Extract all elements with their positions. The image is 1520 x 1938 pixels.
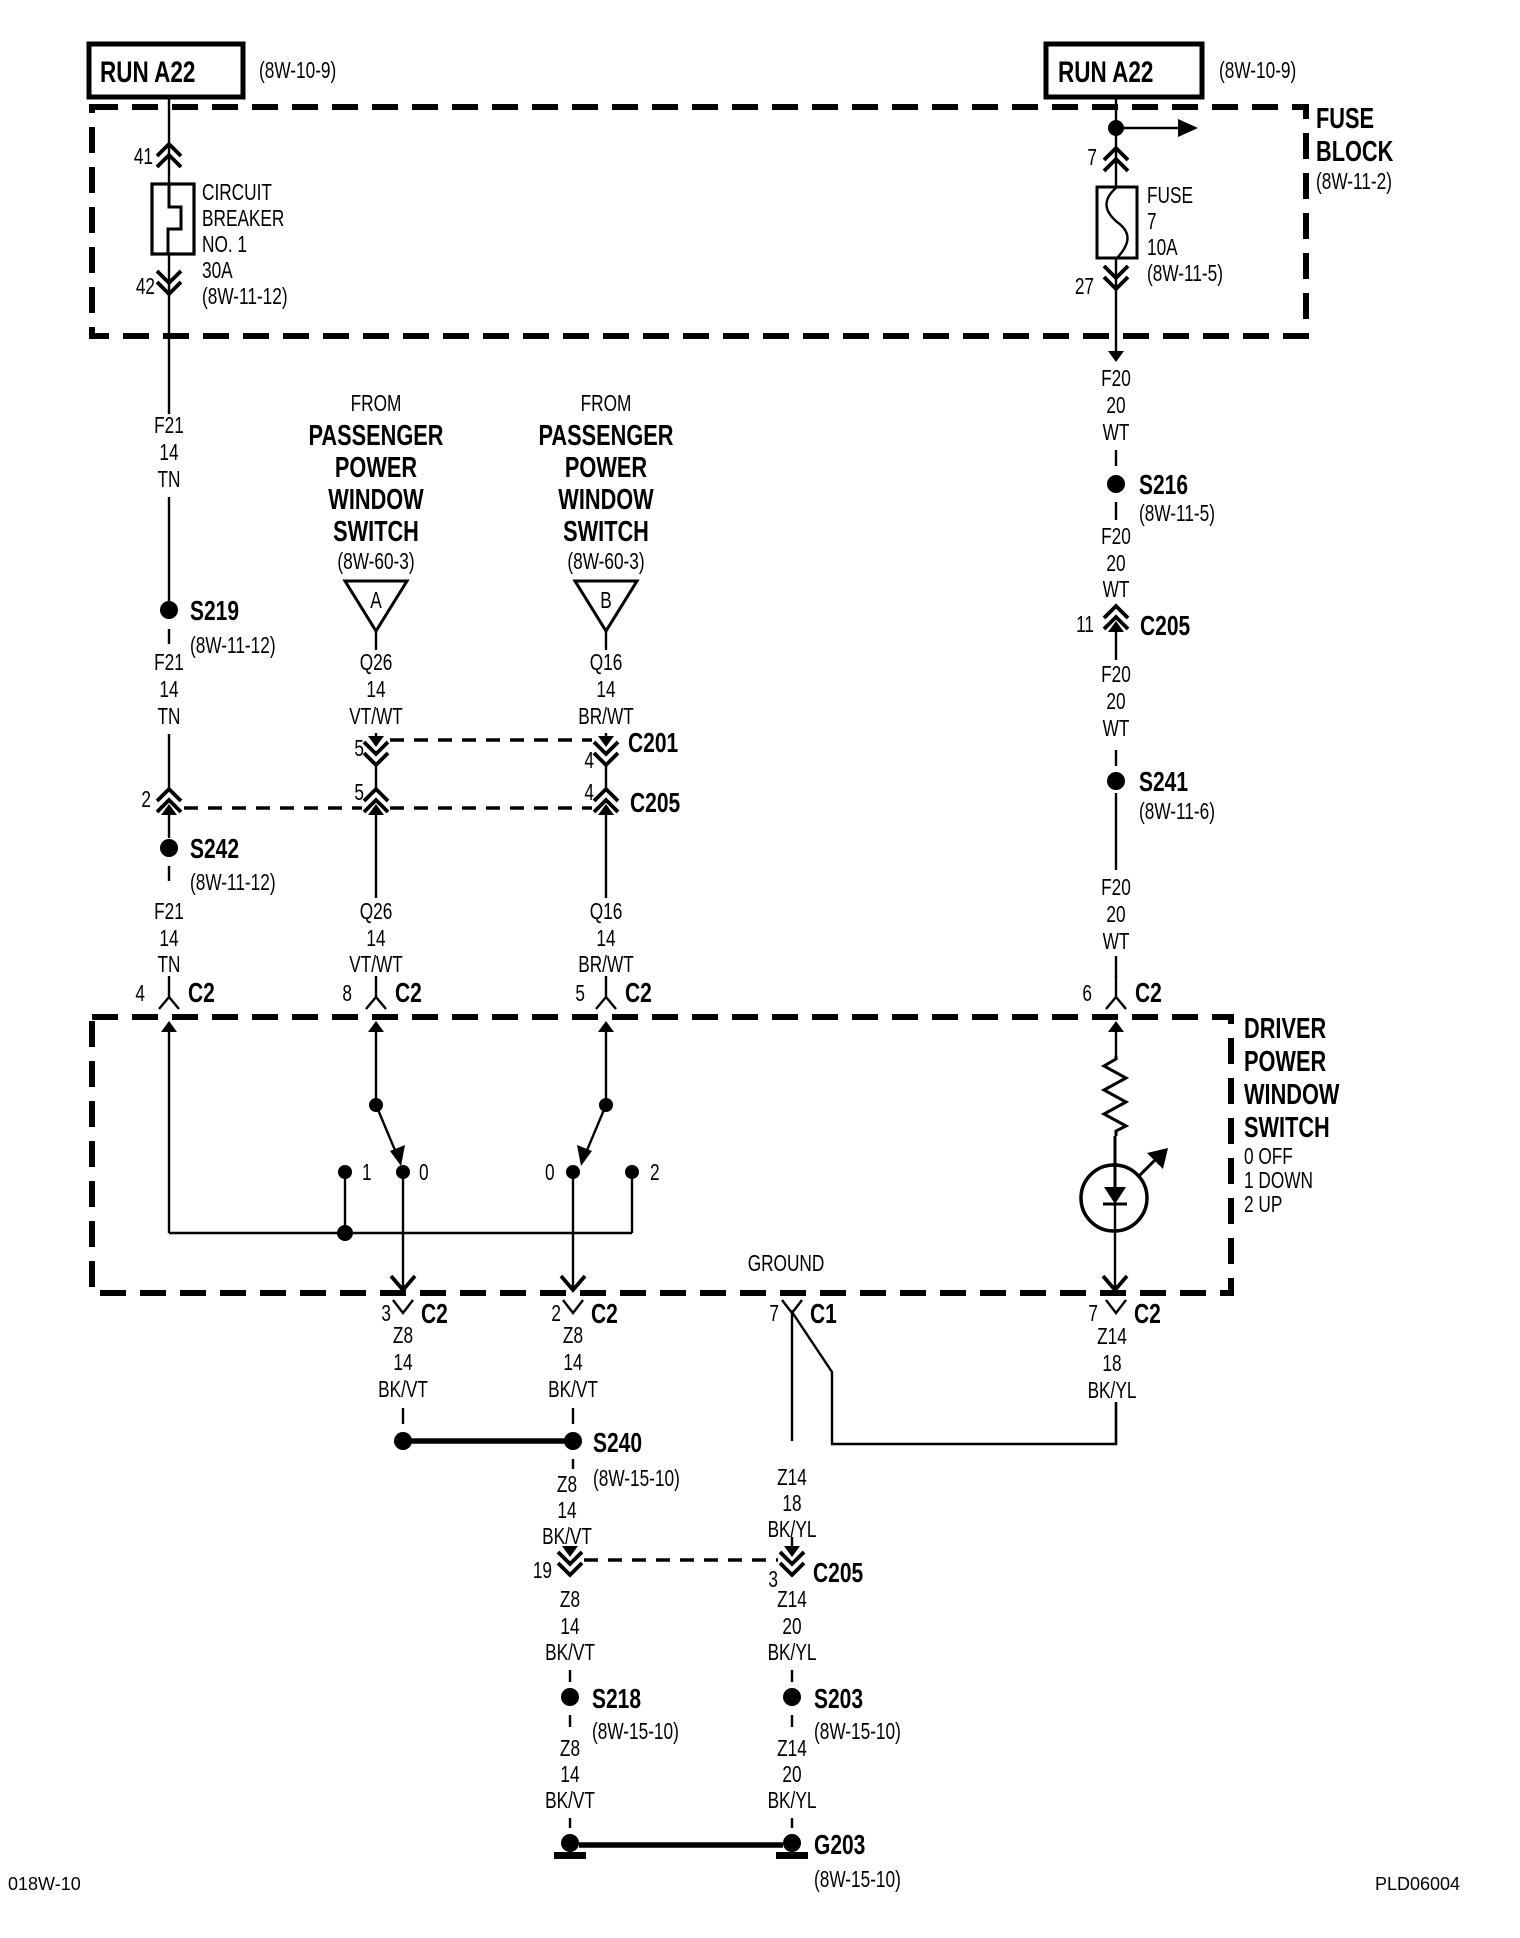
svg-text:Z14: Z14	[777, 1737, 807, 1762]
svg-text:SWITCH: SWITCH	[333, 516, 419, 548]
svg-text:(8W-11-6): (8W-11-6)	[1139, 800, 1215, 825]
svg-text:RUN A22: RUN A22	[1058, 55, 1153, 89]
svg-text:C2: C2	[395, 978, 422, 1009]
svg-text:C2: C2	[625, 978, 652, 1009]
connector 19 (C205)	[533, 1546, 582, 1584]
contact 0 (switch A)	[396, 1161, 429, 1186]
svg-text:BR/WT: BR/WT	[578, 705, 634, 730]
fuse block boundary	[92, 107, 1306, 336]
svg-text:C2: C2	[421, 1299, 448, 1330]
svg-text:SWITCH: SWITCH	[1244, 1112, 1330, 1144]
wire label Z14 18 BK/YL (C1)	[768, 1466, 817, 1543]
svg-text:WT: WT	[1103, 578, 1130, 603]
node RUN A22 (left)	[89, 44, 336, 97]
svg-text:3: 3	[381, 1302, 391, 1327]
wire label F21 14 TN (3)	[154, 900, 184, 978]
wire label F20 20 WT (1)	[1101, 367, 1131, 446]
svg-text:S219: S219	[190, 596, 239, 627]
svg-text:(8W-15-10): (8W-15-10)	[593, 1467, 680, 1492]
svg-text:8: 8	[342, 982, 352, 1007]
svg-text:20: 20	[1106, 690, 1125, 715]
svg-text:4: 4	[135, 982, 145, 1007]
svg-text:18: 18	[1102, 1352, 1121, 1377]
wire label Z8 14 BK/VT (pin2)	[548, 1324, 598, 1403]
wire to S216	[1115, 450, 1117, 466]
svg-text:WINDOW: WINDOW	[1244, 1079, 1340, 1111]
wire stub below S219	[168, 629, 170, 644]
switch A arm	[376, 1105, 405, 1166]
dashed line C205 row A-B	[390, 806, 592, 810]
splice S241	[1107, 767, 1215, 824]
wire label Z8 14 BK/VT (below S240)	[542, 1473, 592, 1550]
wire label Z8 14 BK/VT (pin3)	[378, 1324, 428, 1403]
svg-text:14: 14	[366, 678, 385, 703]
svg-text:14: 14	[557, 1499, 576, 1524]
switch A pivot	[369, 1098, 383, 1112]
svg-text:2: 2	[141, 788, 151, 813]
dashed line C201 row	[390, 738, 592, 742]
wire C1 jog to pin7C2 column	[792, 1312, 1116, 1444]
node RUN A22 (right)	[1046, 44, 1296, 97]
svg-text:(8W-10-9): (8W-10-9)	[259, 59, 336, 84]
wire label F20 20 WT (2)	[1101, 525, 1131, 603]
junction dot top right	[1108, 120, 1124, 136]
splice S219	[160, 596, 276, 658]
svg-text:14: 14	[393, 1351, 412, 1376]
svg-text:S241: S241	[1139, 767, 1188, 798]
circuit breaker label	[202, 181, 288, 310]
wire C1 vertical	[791, 1310, 793, 1441]
svg-text:C2: C2	[591, 1299, 618, 1330]
splice S218	[561, 1684, 679, 1744]
svg-text:(8W-11-12): (8W-11-12)	[190, 634, 276, 659]
svg-text:B: B	[600, 589, 612, 614]
svg-text:BK/VT: BK/VT	[545, 1789, 595, 1814]
svg-text:C2: C2	[1135, 978, 1162, 1009]
ground left	[554, 1834, 586, 1859]
svg-text:7: 7	[769, 1302, 779, 1327]
svg-text:Z8: Z8	[563, 1324, 583, 1349]
svg-text:F20: F20	[1101, 663, 1131, 688]
connector 2 (C205)	[141, 788, 181, 815]
svg-text:F20: F20	[1101, 367, 1131, 392]
wire fuse to F20 label with arrow	[1108, 258, 1124, 362]
svg-text:14: 14	[560, 1615, 579, 1640]
wire below C205 (column B)	[605, 808, 607, 898]
pin 7 C2	[1088, 1299, 1160, 1330]
switch B pivot	[599, 1098, 613, 1112]
svg-text:POWER: POWER	[565, 452, 647, 484]
connector C205 pin 5 (column A)	[354, 781, 388, 815]
svg-text:7: 7	[1087, 146, 1097, 171]
svg-text:Z8: Z8	[560, 1588, 580, 1613]
svg-text:(8W-11-5): (8W-11-5)	[1147, 262, 1223, 287]
connector C205 pin 11	[1076, 606, 1190, 642]
resistor (illumination)	[1104, 1056, 1126, 1136]
contact 0 (switch B)	[545, 1161, 580, 1186]
svg-text:7: 7	[1147, 210, 1157, 235]
svg-text:NO. 1: NO. 1	[202, 233, 247, 258]
wire label F21 14 TN (2)	[154, 651, 184, 730]
wire C201 to C205 (column A)	[375, 765, 377, 789]
svg-text:Q16: Q16	[590, 900, 623, 925]
svg-text:PLD06004: PLD06004	[1375, 1874, 1460, 1894]
svg-text:(8W-10-9): (8W-10-9)	[1219, 59, 1296, 84]
pin 8 C2	[342, 976, 421, 1009]
svg-text:0: 0	[419, 1161, 429, 1186]
wire stub below S218	[569, 1715, 571, 1727]
svg-text:5: 5	[354, 737, 364, 762]
svg-text:RUN A22: RUN A22	[100, 55, 195, 89]
svg-text:20: 20	[782, 1615, 801, 1640]
wire stub below S203	[791, 1715, 793, 1727]
svg-text:19: 19	[533, 1559, 552, 1584]
svg-text:PASSENGER: PASSENGER	[309, 420, 444, 452]
svg-text:S216: S216	[1139, 470, 1188, 501]
pin 27	[1075, 266, 1128, 300]
svg-text:GROUND: GROUND	[748, 1252, 825, 1277]
svg-text:41: 41	[134, 145, 153, 170]
svg-text:30A: 30A	[202, 259, 233, 284]
splice S240	[564, 1428, 680, 1491]
svg-text:0: 0	[545, 1161, 555, 1186]
svg-text:F21: F21	[154, 414, 184, 439]
svg-text:A: A	[370, 589, 382, 614]
svg-text:S203: S203	[814, 1684, 863, 1715]
wire contact1 to bus	[344, 1172, 346, 1233]
wire label F20 20 WT (4)	[1101, 876, 1131, 955]
svg-text:Q16: Q16	[590, 651, 623, 676]
connector C201 pin 5 (column A)	[354, 733, 388, 765]
wire label Z14 20 BK/YL (last)	[768, 1737, 817, 1814]
svg-text:20: 20	[1106, 903, 1125, 928]
pin 3 C2	[381, 1299, 447, 1330]
svg-text:CIRCUIT: CIRCUIT	[202, 181, 272, 206]
svg-text:5: 5	[354, 781, 364, 806]
svg-text:Z8: Z8	[393, 1324, 413, 1349]
wire label Z8 14 BK/VT (below 19)	[545, 1588, 595, 1666]
svg-text:POWER: POWER	[335, 452, 417, 484]
svg-text:11: 11	[1076, 613, 1094, 638]
wire contact0A to pin3	[391, 1172, 415, 1290]
wire label Z14 18 BK/YL (pin7 C2)	[1088, 1325, 1137, 1404]
wire label Z8 14 BK/VT (last)	[545, 1737, 595, 1814]
pin 7 fuse	[1087, 146, 1128, 171]
wire below C205	[1115, 624, 1117, 660]
svg-text:Q26: Q26	[360, 651, 393, 676]
fuse 7 10A	[1097, 187, 1137, 258]
svg-text:C205: C205	[1140, 611, 1190, 642]
ground bus wire	[579, 1842, 783, 1848]
pin 7 C1	[769, 1299, 837, 1330]
wire label F20 20 WT (3)	[1101, 663, 1131, 742]
ground G203	[776, 1830, 901, 1892]
wire label Q16 14 BR/WT (1)	[578, 651, 634, 730]
svg-text:20: 20	[782, 1763, 801, 1788]
arrow feed to other circuits	[1116, 119, 1198, 137]
wire junction to S240	[403, 1438, 572, 1444]
svg-text:(8W-11-5): (8W-11-5)	[1139, 502, 1215, 527]
svg-text:20: 20	[1106, 552, 1125, 577]
svg-text:C2: C2	[1134, 1299, 1161, 1330]
svg-text:018W-10: 018W-10	[8, 1874, 81, 1894]
wire label Q26 14 VT/WT (2)	[349, 900, 403, 978]
splice S203	[783, 1684, 901, 1744]
svg-text:(8W-60-3): (8W-60-3)	[337, 550, 414, 575]
svg-text:Z8: Z8	[557, 1473, 577, 1498]
label FROM PASSENGER POWER WINDOW SWITCH (A)	[309, 392, 444, 575]
svg-text:VT/WT: VT/WT	[349, 705, 403, 730]
driver power window switch boundary	[92, 1017, 1231, 1293]
pin 5 C2	[575, 976, 651, 1009]
svg-text:14: 14	[159, 441, 178, 466]
svg-text:WT: WT	[1103, 930, 1130, 955]
wire below S241	[1115, 793, 1117, 870]
svg-text:FROM: FROM	[351, 392, 402, 417]
svg-text:FROM: FROM	[581, 392, 632, 417]
svg-text:S218: S218	[592, 1684, 641, 1715]
wire LED to pin7 C2	[1103, 1204, 1127, 1290]
wire below S216	[1115, 502, 1117, 520]
wire stub to S203	[791, 1670, 793, 1682]
svg-text:4: 4	[584, 749, 594, 774]
LED indicator lamp	[1081, 1148, 1168, 1231]
wire stub below S242	[168, 866, 170, 881]
svg-text:BR/WT: BR/WT	[578, 953, 634, 978]
wire pin8 into box	[368, 1021, 384, 1105]
pin 41	[134, 144, 181, 170]
wire to S219	[168, 497, 170, 601]
svg-text:2: 2	[650, 1161, 660, 1186]
wire stub to ground right	[791, 1818, 793, 1828]
pin 42	[136, 271, 181, 300]
svg-text:C201: C201	[628, 728, 678, 759]
fuse block label	[1316, 103, 1394, 195]
connector C205 pin 4 (column B)	[584, 781, 680, 819]
wire to S241	[1115, 750, 1117, 766]
pin 2 C2	[551, 1299, 617, 1330]
wire pin5 into box	[598, 1021, 614, 1105]
wire label Q26 14 VT/WT (1)	[349, 651, 403, 730]
svg-text:(8W-15-10): (8W-15-10)	[814, 1720, 901, 1745]
fuse label	[1147, 184, 1223, 287]
svg-text:C1: C1	[810, 1299, 837, 1330]
svg-text:14: 14	[159, 927, 178, 952]
contact 1	[338, 1161, 372, 1186]
wire from RUN A22 left into fuse block	[168, 97, 170, 184]
svg-text:42: 42	[136, 275, 155, 300]
svg-text:BK/YL: BK/YL	[768, 1789, 817, 1814]
svg-text:7: 7	[1088, 1302, 1098, 1327]
pin 6 C2	[1082, 976, 1161, 1009]
driver power window switch label	[1244, 1013, 1340, 1218]
svg-text:5: 5	[575, 982, 585, 1007]
svg-text:10A: 10A	[1147, 236, 1178, 261]
wire resistor to LED	[1114, 1136, 1117, 1187]
svg-text:18: 18	[782, 1492, 801, 1517]
wire to connector 2	[168, 734, 170, 789]
svg-text:S240: S240	[593, 1428, 642, 1459]
svg-text:C205: C205	[813, 1558, 863, 1589]
wire from RUN A22 right into fuse block	[1115, 97, 1117, 187]
wire stub to ground left	[569, 1818, 571, 1828]
wire stub to S218	[569, 1670, 571, 1682]
wire bus inside switch	[169, 1232, 632, 1234]
label FROM PASSENGER POWER WINDOW SWITCH (B)	[539, 392, 674, 575]
svg-text:14: 14	[596, 678, 615, 703]
off-page connector B	[575, 581, 637, 650]
svg-text:S242: S242	[190, 834, 239, 865]
svg-text:Q26: Q26	[360, 900, 393, 925]
svg-text:14: 14	[596, 927, 615, 952]
svg-text:27: 27	[1075, 275, 1094, 300]
svg-text:C2: C2	[188, 978, 215, 1009]
svg-text:2: 2	[551, 1302, 561, 1327]
wire C201 to C205 (column B)	[605, 765, 607, 789]
wire label F21 14 TN (1)	[154, 414, 184, 493]
svg-text:BK/VT: BK/VT	[542, 1525, 592, 1550]
svg-text:2 UP: 2 UP	[1244, 1193, 1282, 1218]
wire stub pin3 column	[402, 1408, 404, 1424]
svg-text:14: 14	[159, 678, 178, 703]
wire contact0B to pin2	[561, 1172, 585, 1290]
svg-text:PASSENGER: PASSENGER	[539, 420, 674, 452]
svg-text:(8W-11-2): (8W-11-2)	[1316, 170, 1392, 195]
svg-text:(8W-15-10): (8W-15-10)	[592, 1720, 679, 1745]
wire contact2 to bus	[631, 1172, 633, 1233]
svg-text:6: 6	[1082, 982, 1092, 1007]
wire stub below S240	[572, 1459, 574, 1469]
svg-text:WINDOW: WINDOW	[558, 484, 654, 516]
svg-text:WT: WT	[1103, 717, 1130, 742]
wire label Q16 14 BR/WT (2)	[578, 900, 634, 978]
svg-text:0 OFF: 0 OFF	[1244, 1145, 1293, 1170]
wire below C205 (column A)	[375, 808, 377, 898]
wire label Z14 20 BK/YL (below C205)	[768, 1588, 817, 1666]
connector C201 pin 4 (column B)	[584, 728, 678, 773]
svg-text:(8W-15-10): (8W-15-10)	[814, 1868, 901, 1893]
junction dot left	[394, 1432, 412, 1450]
svg-text:F21: F21	[154, 651, 184, 676]
svg-text:C205: C205	[630, 788, 680, 819]
wire WT to pin 6	[1115, 956, 1117, 978]
off-page connector A	[345, 581, 407, 650]
svg-text:BK/VT: BK/VT	[548, 1378, 598, 1403]
svg-text:(8W-11-12): (8W-11-12)	[190, 871, 276, 896]
circuit breaker No. 1	[152, 184, 194, 254]
svg-text:Z14: Z14	[777, 1466, 807, 1491]
svg-text:WINDOW: WINDOW	[328, 484, 424, 516]
svg-text:TN: TN	[158, 705, 181, 730]
junction	[337, 1225, 353, 1241]
svg-text:BK/VT: BK/VT	[545, 1641, 595, 1666]
svg-text:BK/YL: BK/YL	[1088, 1379, 1137, 1404]
splice S242	[160, 834, 276, 895]
svg-text:Z14: Z14	[1097, 1325, 1127, 1350]
svg-text:14: 14	[366, 927, 385, 952]
wire breaker to F21 label	[168, 254, 170, 414]
svg-text:F20: F20	[1101, 525, 1131, 550]
svg-text:F21: F21	[154, 900, 184, 925]
svg-text:14: 14	[560, 1763, 579, 1788]
dashed line 19-3 row	[584, 1558, 778, 1562]
wire below pin7 C2 label	[1115, 1402, 1117, 1444]
svg-text:BK/VT: BK/VT	[378, 1378, 428, 1403]
svg-text:(8W-11-12): (8W-11-12)	[202, 285, 288, 310]
svg-text:Z8: Z8	[560, 1737, 580, 1762]
svg-text:1: 1	[362, 1161, 372, 1186]
svg-text:BK/YL: BK/YL	[768, 1641, 817, 1666]
switch B arm	[577, 1105, 606, 1166]
svg-text:20: 20	[1106, 394, 1125, 419]
dashed line C205 row	[184, 806, 362, 810]
svg-text:F20: F20	[1101, 876, 1131, 901]
svg-text:BREAKER: BREAKER	[202, 207, 284, 232]
svg-text:(8W-60-3): (8W-60-3)	[567, 550, 644, 575]
svg-text:VT/WT: VT/WT	[349, 953, 403, 978]
svg-text:Z14: Z14	[777, 1588, 807, 1613]
wire to S242	[168, 808, 170, 838]
pin 4 C2	[135, 976, 214, 1009]
connector C205 pin 3	[768, 1537, 863, 1593]
svg-text:FUSE: FUSE	[1316, 103, 1374, 135]
contact 2	[625, 1161, 660, 1186]
svg-text:WT: WT	[1103, 421, 1130, 446]
svg-text:14: 14	[563, 1351, 582, 1376]
wire stub pin2 column	[572, 1408, 574, 1424]
wire pin6 into box	[1108, 1021, 1124, 1056]
wire pin4 into box	[161, 1021, 177, 1233]
svg-text:BLOCK: BLOCK	[1316, 136, 1394, 168]
svg-text:SWITCH: SWITCH	[563, 516, 649, 548]
svg-text:4: 4	[584, 781, 594, 806]
svg-text:TN: TN	[158, 953, 181, 978]
svg-text:POWER: POWER	[1244, 1046, 1326, 1078]
svg-text:FUSE: FUSE	[1147, 184, 1193, 209]
svg-text:1 DOWN: 1 DOWN	[1244, 1169, 1313, 1194]
svg-text:G203: G203	[814, 1830, 865, 1861]
splice S216	[1107, 470, 1215, 526]
svg-text:TN: TN	[158, 468, 181, 493]
svg-text:DRIVER: DRIVER	[1244, 1013, 1326, 1045]
